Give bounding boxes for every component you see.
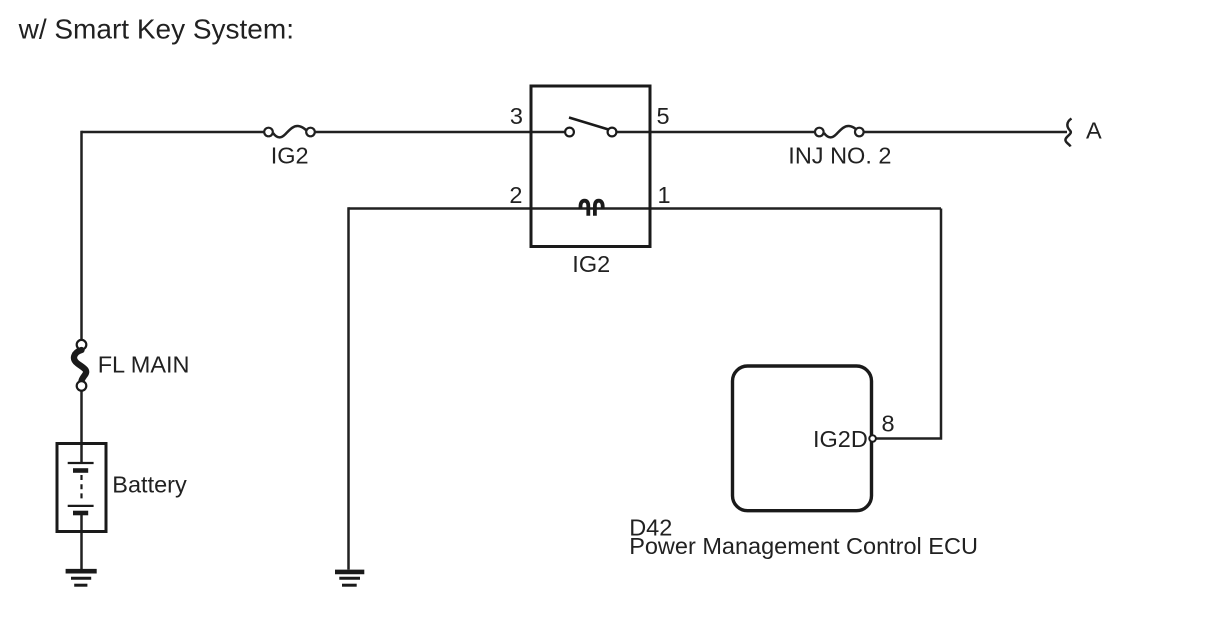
svg-text:5: 5 bbox=[657, 103, 670, 129]
ground under battery: bar 3 bbox=[74, 584, 87, 587]
ground under battery: bar 1 bbox=[66, 569, 97, 574]
svg-text:2: 2 bbox=[509, 182, 522, 208]
fusible link FL MAIN top terminal circle bbox=[77, 340, 87, 350]
battery bottom cell short thick plate bbox=[73, 511, 88, 516]
fuse IG2 left terminal circle bbox=[264, 128, 273, 137]
svg-text:Battery: Battery bbox=[112, 472, 187, 498]
svg-text:A: A bbox=[1086, 117, 1102, 143]
battery top cell short thick plate bbox=[73, 468, 88, 473]
fuse INJ NO. 2 right terminal circle bbox=[855, 128, 864, 137]
svg-text:8: 8 bbox=[882, 410, 895, 436]
ground under relay coil branch: bar 1 bbox=[335, 570, 364, 575]
ground under relay coil branch: bar 2 bbox=[339, 577, 360, 580]
svg-text:Power Management Control ECU: Power Management Control ECU bbox=[629, 533, 978, 559]
battery top cell long plate bbox=[68, 462, 94, 464]
wire: vertical down to ground from pin 2 branch bbox=[347, 207, 350, 569]
svg-text:FL MAIN: FL MAIN bbox=[98, 351, 190, 377]
ECU box D42 (rounded) bbox=[733, 366, 872, 511]
fuse IG2 right terminal circle bbox=[306, 128, 315, 137]
battery bottom cell long plate bbox=[68, 505, 94, 507]
svg-text:IG2D: IG2D bbox=[813, 426, 868, 452]
battery dashed middle link bbox=[80, 475, 82, 501]
wire: vertical from pin1 line down to ECU pin 8 bbox=[873, 209, 941, 439]
fusible link FL MAIN thick S element bbox=[74, 350, 86, 381]
relay switch blade bbox=[569, 118, 609, 130]
ECU pin 8 terminal circle bbox=[869, 435, 876, 442]
wire: battery to ground bbox=[80, 514, 83, 569]
relay switch right contact circle bbox=[608, 128, 617, 137]
svg-text:1: 1 bbox=[658, 182, 671, 208]
wire: top horizontal left segment (battery branch to fuse IG2) bbox=[82, 131, 269, 134]
connector A squiggle bbox=[1065, 119, 1071, 147]
fuse INJ NO. 2 wavy element bbox=[824, 126, 858, 137]
relay coil left arch bbox=[581, 201, 589, 216]
ground under relay coil branch: bar 3 bbox=[342, 584, 357, 587]
relay switch left contact circle bbox=[565, 128, 574, 137]
wire: left vertical from top corner down to FL MAIN bbox=[80, 131, 83, 345]
svg-text:IG2: IG2 bbox=[271, 142, 309, 168]
fusible link FL MAIN bottom terminal circle bbox=[77, 381, 87, 391]
svg-text:INJ NO. 2: INJ NO. 2 bbox=[788, 143, 891, 169]
battery box bbox=[57, 444, 106, 532]
ground under battery: bar 2 bbox=[71, 577, 91, 580]
fuse INJ NO. 2 left terminal circle bbox=[815, 128, 824, 137]
relay coil right arch bbox=[595, 201, 603, 216]
fuse IG2 wavy element bbox=[273, 126, 307, 137]
wire: fuse INJ NO. 2 to connector A bbox=[859, 131, 1067, 134]
wire: bottom horizontal (relay coil line) pin2 to pin1 corner bbox=[349, 207, 942, 210]
svg-text:3: 3 bbox=[510, 103, 523, 129]
wire: relay switch right contact to fuse INJ NO. 2 bbox=[612, 131, 819, 134]
svg-text:IG2: IG2 bbox=[572, 251, 610, 277]
svg-text:w/ Smart Key System:: w/ Smart Key System: bbox=[18, 14, 294, 45]
relay box IG2 bbox=[531, 86, 650, 247]
wire: FL MAIN to battery bbox=[80, 386, 83, 463]
wire: fuse IG2 to relay switch left contact bbox=[311, 131, 570, 134]
